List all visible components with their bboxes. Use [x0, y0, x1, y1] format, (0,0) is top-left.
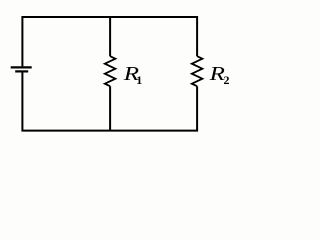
svg-text:1: 1 [136, 73, 142, 87]
svg-text:2: 2 [224, 73, 230, 87]
